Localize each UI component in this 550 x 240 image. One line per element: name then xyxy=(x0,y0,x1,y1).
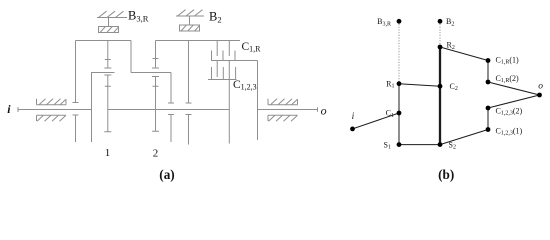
edge B2 to R2 dotted xyxy=(439,21,441,47)
caption (a) xyxy=(159,167,174,182)
caption (b) xyxy=(438,167,454,182)
node B2 xyxy=(438,17,455,27)
brake B3,R stem xyxy=(108,18,110,27)
input bearing lower hatch xyxy=(37,115,67,121)
svg-text:i: i xyxy=(7,102,11,116)
node o xyxy=(537,82,543,98)
svg-text:B2: B2 xyxy=(209,9,222,24)
output bearing upper hatch xyxy=(268,99,298,105)
node C2 xyxy=(438,82,458,92)
wire carrier 2 bar xyxy=(131,72,171,74)
svg-text:C1,2,3(1): C1,2,3(1) xyxy=(496,126,523,136)
edge B3,R to R1 dotted xyxy=(398,21,400,83)
svg-text:C1,R(2): C1,R(2) xyxy=(496,74,520,84)
wire top frame segment 1 xyxy=(76,40,132,42)
gear set 1 ring line xyxy=(104,41,111,69)
gear set 2 sun line xyxy=(152,77,159,132)
edge C1,R(2) to o xyxy=(488,82,540,95)
edge R2 to S2 thick xyxy=(439,47,441,145)
svg-text:C1,R: C1,R xyxy=(242,41,262,54)
wire carrier 2 drop upper xyxy=(168,73,174,104)
node C1,R(2) xyxy=(486,74,519,85)
wire carrier 1 vertical xyxy=(91,73,93,143)
wire left housing vertical lower xyxy=(73,115,79,142)
label B3,R xyxy=(128,8,149,23)
svg-text:C1,R(1): C1,R(1) xyxy=(496,55,520,65)
output shaft xyxy=(258,107,318,111)
svg-text:S2: S2 xyxy=(449,140,456,150)
svg-text:i: i xyxy=(352,112,355,122)
node B3,R xyxy=(377,17,401,27)
svg-text:1: 1 xyxy=(105,147,111,159)
edge C1,2,3(1) to S2 xyxy=(440,130,488,145)
svg-text:C1,2,3: C1,2,3 xyxy=(233,79,257,92)
svg-text:B3,R: B3,R xyxy=(128,8,149,23)
edge C1,R(1) to C1,R(2) xyxy=(487,61,489,83)
svg-text:C1,2,3(2): C1,2,3(2) xyxy=(496,106,523,116)
clutch C1,2,3 hanging plate xyxy=(216,61,218,78)
svg-text:C2: C2 xyxy=(450,82,458,92)
wire carrier 1 bar xyxy=(91,72,115,74)
wire left housing vertical upper xyxy=(73,41,79,103)
wire ring 2 shaft upper xyxy=(186,41,192,104)
label B2 xyxy=(209,9,222,24)
svg-text:R2: R2 xyxy=(447,41,455,51)
gear set 2 ring line xyxy=(152,41,159,69)
svg-text:o: o xyxy=(321,104,327,118)
label C1,R xyxy=(242,41,262,54)
output drum vertical xyxy=(257,61,259,141)
wire top frame segment 2 and clutch C1,R top bar xyxy=(156,40,241,42)
edge C1,2,3(2) to C1,2,3(1) xyxy=(487,108,489,130)
wire ring 2 shaft lower xyxy=(186,115,192,145)
edge o to C1,2,3(2) xyxy=(488,95,540,108)
edge R1 to S1 xyxy=(398,84,400,145)
clutch C1,2,3 bottom bar xyxy=(208,79,237,81)
input shaft i xyxy=(18,107,92,112)
label gear set 2 xyxy=(153,148,159,160)
svg-text:o: o xyxy=(538,82,543,92)
brake B2 stem xyxy=(189,16,191,25)
label gear set 1 xyxy=(105,147,111,159)
node i xyxy=(350,112,355,131)
svg-text:(b): (b) xyxy=(438,167,454,182)
label C1,2,3 xyxy=(233,79,257,92)
label o output xyxy=(321,104,327,118)
brake B3,R ground hatch xyxy=(97,11,127,17)
wire carrier 2 drop lower xyxy=(168,115,174,143)
edge i to C1 xyxy=(353,113,400,129)
clutch C1,2,3 output plate long vertical xyxy=(228,61,230,144)
clutch C1,R rising plates xyxy=(212,51,236,61)
wire frame drop at x131 xyxy=(130,41,132,73)
svg-text:B2: B2 xyxy=(446,17,454,27)
svg-text:(a): (a) xyxy=(159,167,174,182)
edge R1 to C2 xyxy=(399,84,440,87)
gear set 1 sun line xyxy=(104,75,111,132)
svg-text:B3,R: B3,R xyxy=(377,17,391,27)
node R1 xyxy=(386,79,401,89)
svg-text:2: 2 xyxy=(153,148,159,160)
node C1,R(1) xyxy=(486,55,519,65)
node C1,2,3(1) xyxy=(486,126,523,136)
svg-text:S1: S1 xyxy=(384,140,391,150)
node R2 xyxy=(438,41,455,51)
middle shaft xyxy=(108,109,230,111)
node C1 xyxy=(386,109,402,119)
brake B2 ground hatch xyxy=(176,10,204,16)
brake B3,R friction box xyxy=(99,27,119,33)
svg-text:R1: R1 xyxy=(386,79,394,89)
label i input xyxy=(7,102,11,116)
svg-text:C1: C1 xyxy=(386,109,394,119)
clutch C1,2,3 rising plates xyxy=(212,67,236,80)
node S2 xyxy=(438,140,456,150)
node C1,2,3(2) xyxy=(486,106,523,117)
edge R2 to C1,R(1) xyxy=(440,47,488,61)
node S1 xyxy=(384,140,402,150)
input bearing upper hatch xyxy=(37,99,67,105)
brake B2 friction box xyxy=(180,25,200,31)
output bearing lower hatch xyxy=(268,115,298,121)
clutch middle bar xyxy=(211,60,258,62)
edge S1 to S2 xyxy=(399,144,440,146)
clutch C1,R hanging plates xyxy=(217,41,229,57)
